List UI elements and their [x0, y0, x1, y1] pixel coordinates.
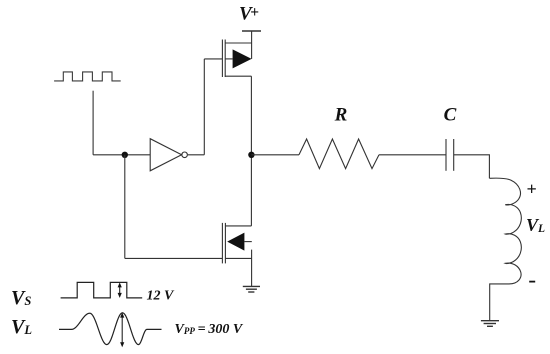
wire Q2 source down to ground	[251, 250, 253, 287]
transistor Q1 PMOS top (source) lead	[225, 42, 251, 44]
ground GND2	[481, 321, 499, 327]
resistor R zigzag	[299, 139, 379, 169]
inductor L coil	[489, 178, 521, 321]
wire capacitor to inductor	[454, 155, 490, 179]
svg-text:R: R	[334, 105, 348, 126]
annotation VL sine waveform	[59, 313, 162, 345]
transistor Q2 NMOS drain lead	[225, 225, 251, 227]
transistor Q1 PMOS bottom (drain) lead	[225, 75, 251, 77]
wire V+ bar to PMOS source/body	[251, 31, 253, 59]
power rail V+ bar	[242, 30, 261, 32]
svg-text:VS: VS	[11, 287, 31, 309]
wire Q1 drain down to node A	[250, 76, 252, 155]
ground GND1	[243, 286, 260, 292]
wire input source down	[92, 91, 94, 155]
node B junction dot	[122, 152, 128, 158]
svg-text:C: C	[444, 105, 457, 126]
transistor Q1 PMOS channel line	[224, 40, 226, 78]
transistor Q2 NMOS body arrow	[227, 233, 244, 251]
svg-text:12 V: 12 V	[147, 289, 176, 304]
wire inverter output	[188, 154, 204, 156]
wire input horizontal to inverter	[93, 154, 150, 156]
transistor Q1 PMOS gate plate	[221, 40, 223, 78]
svg-text:VL: VL	[11, 316, 32, 338]
transistor Q1 PMOS body arrow	[233, 49, 252, 68]
wire node B down to Q2 gate	[124, 155, 126, 259]
transistor Q2 NMOS body stub	[244, 241, 251, 243]
svg-text:VL: VL	[526, 215, 545, 235]
svg-text:VPP = 300 V: VPP = 300 V	[175, 322, 244, 337]
input square-wave symbol	[54, 72, 121, 81]
annotation VL peak-to-peak arrow	[120, 313, 124, 348]
transistor Q2 NMOS source lead	[225, 257, 251, 259]
inverter U1 output bubble	[182, 152, 188, 158]
capacitor C left plate	[445, 139, 447, 171]
transistor Q2 NMOS gate plate	[221, 223, 223, 264]
wire resistor to capacitor	[379, 154, 446, 156]
wire Q1 gate horizontal	[204, 58, 222, 60]
svg-text:+: +	[526, 179, 536, 199]
wire inverter output up to Q1 gate	[203, 59, 205, 155]
wire Q2 gate horizontal	[125, 257, 223, 259]
wire node A to resistor	[251, 154, 299, 156]
annotation VS peak-to-peak arrow	[118, 282, 122, 298]
transistor Q2 NMOS channel line	[224, 223, 226, 264]
wire Q2 drain up to node A	[250, 155, 252, 226]
annotation VS square waveform	[61, 282, 143, 298]
transistor Q1 PMOS body stub	[225, 58, 232, 60]
node A junction dot	[248, 152, 254, 158]
inverter U1 triangle	[150, 139, 181, 171]
svg-text:V+: V+	[239, 4, 259, 25]
label - (inductor bottom)	[529, 281, 535, 283]
capacitor C right plate	[453, 139, 455, 171]
